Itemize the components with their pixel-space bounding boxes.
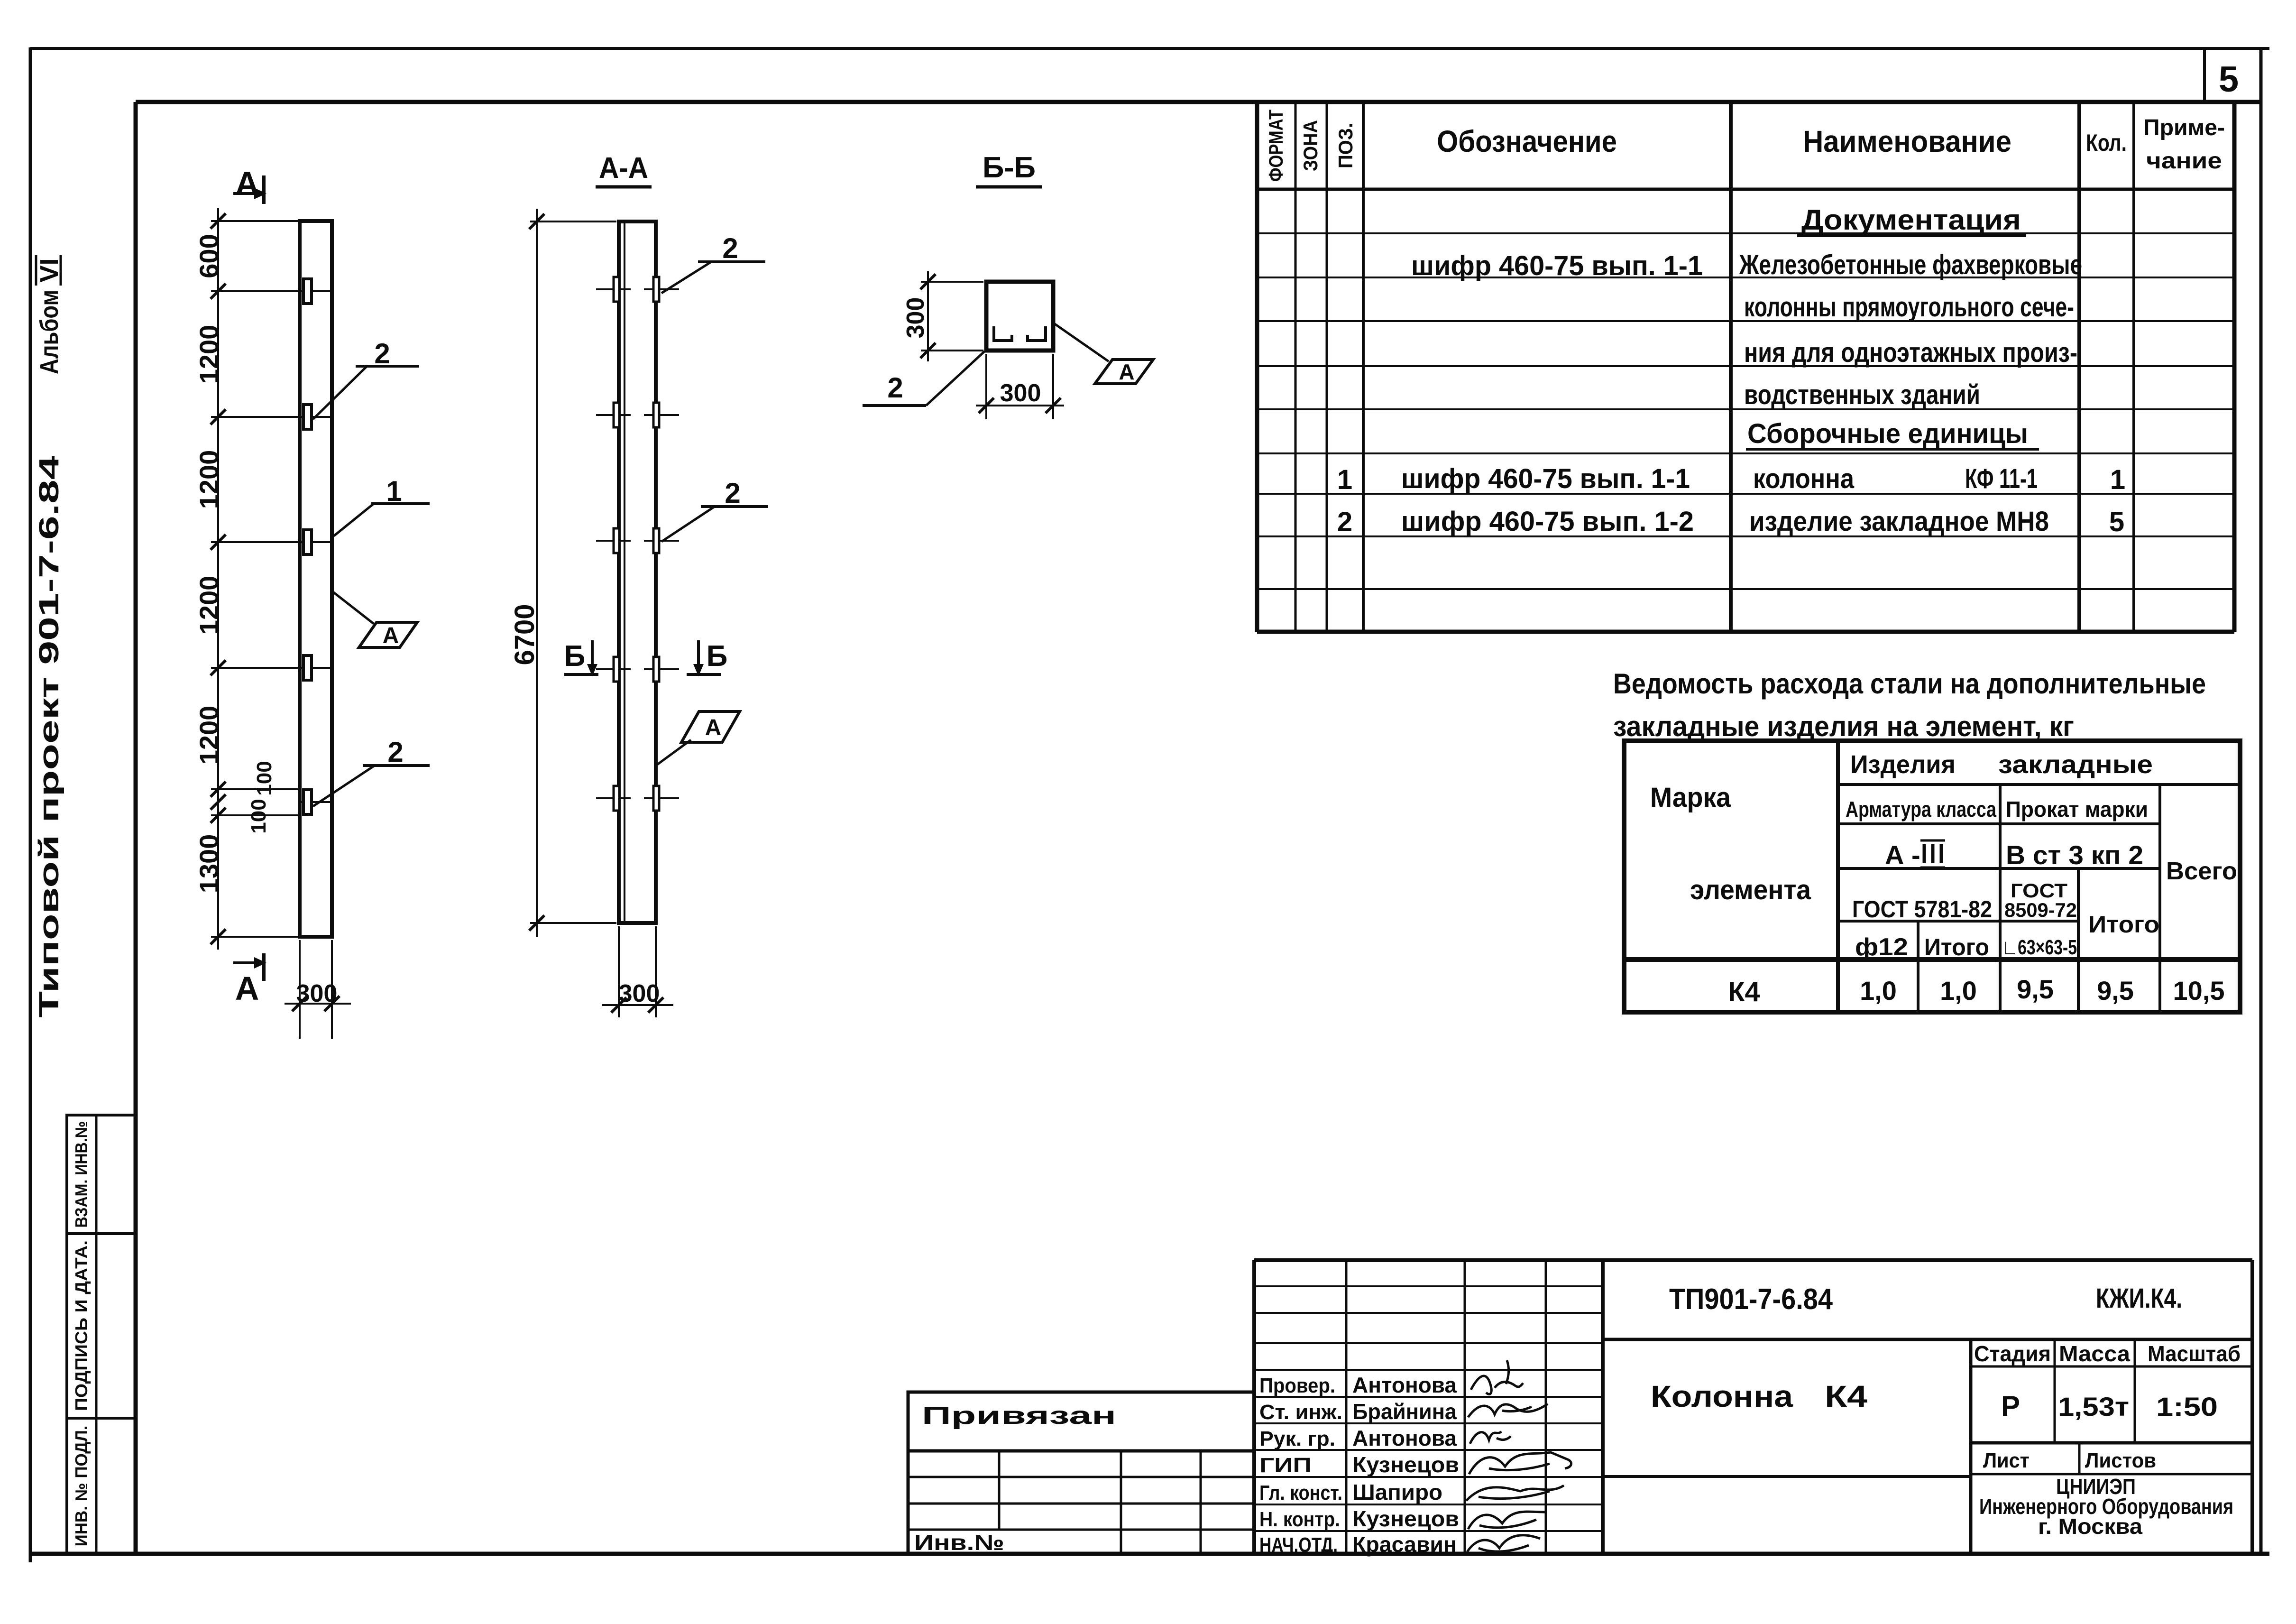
svg-text:VI: VI [35,258,64,282]
signature table verticals [1254,1260,1603,1554]
svg-text:Марка: Марка [1650,782,1731,813]
embedded plates MN8 (5 pcs) [303,279,312,814]
cell A-III [1885,840,1945,870]
svg-text:5: 5 [2219,59,2239,100]
leader 2 upper elevation [313,338,419,419]
svg-text:элемента: элемента [1690,875,1811,905]
leader 2 top A-A [661,232,765,293]
svg-text:К4: К4 [1825,1379,1867,1413]
steel table outer border [1624,741,2240,1012]
title block right edge [2250,1260,2254,1554]
svg-text:А -: А - [1885,840,1920,870]
svg-text:ТП901-7-6.84: ТП901-7-6.84 [1669,1283,1833,1316]
svg-text:шифр 460-75 вып. 1-2: шифр 460-75 вып. 1-2 [1401,506,1694,537]
svg-text:10,5: 10,5 [2173,976,2225,1006]
svg-text:Листов: Листов [2085,1449,2156,1472]
svg-text:шифр 460-75 вып. 1-1: шифр 460-75 вып. 1-1 [1411,250,1703,281]
svg-text:К4: К4 [1728,977,1760,1007]
svg-text:ГОСТ 5781-82: ГОСТ 5781-82 [1852,896,1992,923]
svg-text:Альбом: Альбом [35,290,64,374]
svg-text:Р: Р [2001,1390,2020,1422]
svg-text:Типовой проект 901-7-6.84: Типовой проект 901-7-6.84 [34,456,64,1018]
svg-text:Гл. конст.: Гл. конст. [1259,1481,1342,1504]
svg-text:1200: 1200 [194,450,224,509]
bottom dim 300 A-A [602,926,673,1017]
section mark B right [687,640,727,676]
left dim 300 B-B [902,271,983,361]
column section A-A outline [619,221,656,923]
svg-text:Антонова: Антонова [1352,1373,1457,1397]
svg-text:ГОСТ: ГОСТ [2011,879,2067,902]
svg-text:1200: 1200 [194,706,224,765]
svg-text:ИНВ. № ПОДЛ.: ИНВ. № ПОДЛ. [72,1426,91,1547]
svg-text:чание: чание [2146,148,2222,174]
view flag A on B-B [1054,323,1153,384]
svg-text:1200: 1200 [194,325,224,384]
svg-text:1: 1 [2110,464,2125,495]
svg-text:Шапиро: Шапиро [1352,1480,1442,1504]
privyazan box [908,1392,1254,1451]
section B-B square [986,282,1053,351]
svg-text:Наименование: Наименование [1803,124,2011,158]
svg-text:Ст. инж.: Ст. инж. [1259,1401,1342,1424]
svg-text:300: 300 [902,297,929,339]
svg-text:закладные изделия на эле: закладные изделия на элемент, кг [1613,710,2074,742]
signature labels [1259,1374,1342,1557]
plates and tick lines A-A [596,289,679,798]
svg-text:Провер.: Провер. [1259,1374,1335,1397]
section mark A top [233,165,266,204]
dim 6700 [509,209,616,937]
bottom dim 300 elevation [285,940,351,1039]
svg-text:колонны прямоугольного сече-: колонны прямоугольного сече- [1744,292,2074,323]
svg-text:1,53т: 1,53т [2058,1392,2129,1421]
svg-text:1,0: 1,0 [1860,976,1897,1006]
svg-text:Инв.№: Инв.№ [914,1530,1004,1555]
svg-text:КФ 11-1: КФ 11-1 [1965,463,2038,494]
svg-text:Антонова: Антонова [1352,1426,1457,1450]
svg-text:закладные: закладные [1998,750,2153,779]
svg-text:2: 2 [887,372,903,404]
svg-text:8509-72: 8509-72 [2004,899,2077,921]
svg-text:2: 2 [374,338,390,369]
inner face line [624,221,625,923]
svg-text:Красавин: Красавин [1352,1532,1457,1557]
svg-text:Итого: Итого [1924,934,1989,960]
svg-text:Обозначение: Обозначение [1437,124,1617,158]
svg-text:Б: Б [564,640,586,673]
view flag A on A-A [657,711,740,765]
sheet number box [2203,48,2206,102]
signature table rows [1254,1286,1603,1531]
svg-text:600: 600 [194,234,224,278]
svg-text:А: А [235,970,259,1007]
svg-text:ния для одноэтажных произ-: ния для одноэтажных произ- [1744,337,2077,368]
svg-text:2: 2 [722,232,738,264]
svg-text:9,5: 9,5 [2017,974,2054,1004]
title A-A [596,152,652,187]
svg-text:Кол.: Кол. [2086,129,2127,156]
svg-text:6700: 6700 [509,604,540,665]
plate level lines across column [300,291,332,802]
signature names [1352,1373,1459,1557]
svg-text:Масса: Масса [2059,1341,2130,1366]
signature squiggles [1466,1360,1571,1552]
svg-text:Масштаб: Масштаб [2148,1341,2241,1366]
svg-text:1300: 1300 [194,834,224,894]
svg-text:Б-Б: Б-Б [983,151,1036,184]
svg-text:300: 300 [296,980,338,1007]
steel table verticals [1838,741,2160,1012]
svg-text:ф12: ф12 [1855,933,1908,961]
svg-text:100: 100 [247,799,270,833]
svg-text:2: 2 [1337,507,1352,537]
section mark B left [564,640,598,676]
svg-text:ГИП: ГИП [1259,1454,1312,1477]
margin box: Inv no podl [67,1418,136,1554]
dimension ticks [211,213,226,944]
svg-text:Кузнецов: Кузнецов [1352,1506,1459,1531]
svg-text:А: А [705,715,722,740]
svg-text:А: А [1119,360,1134,384]
svg-text:НАЧ.ОТД.: НАЧ.ОТД. [1259,1533,1338,1557]
svg-text:ЗОНА: ЗОНА [1299,120,1322,171]
bottom dim 300 B-B [976,354,1064,419]
svg-text:∟63×63-5: ∟63×63-5 [2002,936,2077,959]
svg-text:1200: 1200 [194,576,224,635]
svg-text:Б: Б [707,640,728,673]
svg-text:В ст 3 кп 2: В ст 3 кп 2 [2006,840,2143,870]
svg-text:А: А [383,623,399,648]
dimension chain extension lines [211,221,300,937]
svg-text:Приме-: Приме- [2143,115,2225,140]
svg-text:изделие закладное МН8: изделие закладное МН8 [1749,506,2049,537]
svg-text:Прокат марки: Прокат марки [2006,797,2148,821]
svg-text:1,0: 1,0 [1940,976,1977,1006]
column K4 elevation outline [300,221,332,937]
privyazan grid [908,1451,1254,1554]
svg-text:Кузнецов: Кузнецов [1352,1452,1459,1477]
svg-text:Ведомость расхода стали на: Ведомость расхода стали на дополнительны… [1613,668,2206,700]
svg-text:100: 100 [253,761,276,795]
svg-text:1:50: 1:50 [2156,1392,2218,1421]
svg-text:1: 1 [386,475,402,507]
svg-text:2: 2 [387,736,403,768]
svg-text:Железобетонные фахверковые: Железобетонные фахверковые [1739,249,2082,280]
spec table horizontals [1257,189,2234,632]
line under designation row [1603,1338,2252,1341]
svg-text:5: 5 [2109,507,2124,537]
svg-text:Стадия: Стадия [1974,1341,2051,1366]
svg-text:КЖИ.К4.: КЖИ.К4. [2096,1283,2182,1314]
svg-text:Брайнина: Брайнина [1352,1399,1457,1424]
leader 2 mid A-A [661,477,768,542]
svg-text:2: 2 [725,477,740,509]
svg-text:ПОЗ.: ПОЗ. [1334,123,1357,168]
svg-text:9,5: 9,5 [2097,976,2134,1006]
svg-text:ВЗАМ. ИНВ.№: ВЗАМ. ИНВ.№ [72,1121,91,1228]
svg-text:Итого: Итого [2088,911,2159,938]
svg-text:Арматура класса: Арматура класса [1846,797,1996,821]
svg-text:Изделия: Изделия [1850,750,1956,779]
stamp grid right [1971,1339,2252,1554]
embedded angles inside [994,326,1046,341]
svg-text:1: 1 [1337,464,1352,495]
svg-text:А-А: А-А [599,152,648,185]
leader 1 elevation [334,475,430,536]
spec table verticals [1257,102,2234,632]
svg-text:ФОРМАТ: ФОРМАТ [1265,110,1287,182]
margin box: Vzam inv no [67,1115,136,1234]
title B-B [976,151,1042,187]
svg-text:водственных зданий: водственных зданий [1744,379,1980,410]
svg-text:Рук. гр.: Рук. гр. [1259,1427,1335,1450]
svg-text:300: 300 [619,980,660,1007]
svg-text:шифр 460-75 вып. 1-1: шифр 460-75 вып. 1-1 [1401,463,1690,494]
svg-text:Колонна: Колонна [1651,1379,1793,1413]
svg-text:колонна: колонна [1753,463,1855,494]
svg-text:ПОДПИСЬ И ДАТА.: ПОДПИСЬ И ДАТА. [72,1240,91,1411]
section mark A bottom [233,953,266,1007]
view flag A elevation [332,591,417,648]
svg-text:Привязан: Привязан [922,1402,1116,1430]
steel table horizontals [1624,784,2240,960]
svg-text:Документация: Документация [1801,204,2021,236]
leader 2 B-B [863,351,984,406]
svg-text:Лист: Лист [1983,1449,2030,1472]
margin box: Podpis i data [67,1234,136,1418]
svg-text:300: 300 [1000,379,1041,407]
margin text: Album VI [35,255,64,374]
svg-text:Всего: Всего [2166,858,2237,885]
svg-text:Н. контр.: Н. контр. [1259,1508,1340,1531]
svg-text:Сборочные единицы: Сборочные единицы [1747,418,2028,449]
svg-text:г. Москва: г. Москва [2038,1514,2142,1539]
dimension line vertical [217,208,219,950]
leader 2 lower elevation [313,736,430,806]
title block outer top [1254,1258,2252,1262]
